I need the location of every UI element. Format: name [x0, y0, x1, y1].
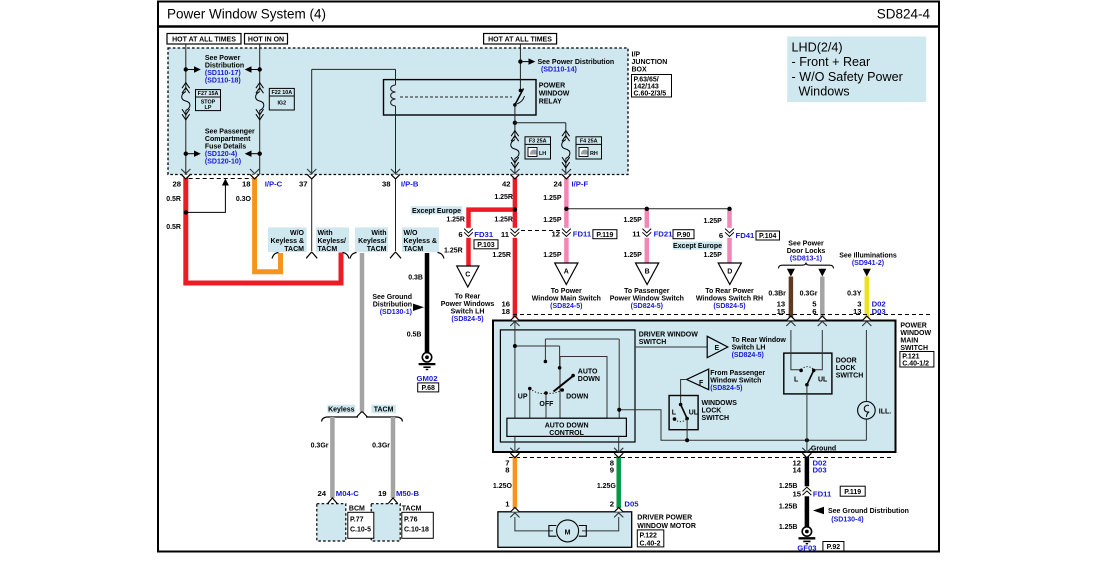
svg-text:0.5R: 0.5R: [166, 196, 181, 203]
svg-text:ILL.: ILL.: [879, 408, 891, 415]
svg-text:UL: UL: [689, 410, 699, 417]
svg-text:WINDOW: WINDOW: [900, 330, 931, 337]
svg-text:TACM: TACM: [404, 246, 424, 253]
svg-text:Except Europe: Except Europe: [673, 243, 722, 250]
svg-text:18: 18: [242, 180, 251, 189]
svg-text:I/P-B: I/P-B: [401, 180, 419, 189]
svg-text:1: 1: [505, 499, 510, 508]
svg-text:MAIN: MAIN: [900, 338, 918, 345]
svg-text:15: 15: [792, 490, 801, 499]
svg-text:TACM: TACM: [367, 246, 387, 253]
svg-text:6: 6: [458, 230, 462, 239]
svg-text:FD41: FD41: [736, 231, 756, 240]
svg-text:I/P: I/P: [632, 52, 641, 59]
svg-text:12: 12: [551, 229, 560, 238]
svg-text:11: 11: [501, 230, 510, 239]
svg-text:1.25R: 1.25R: [446, 216, 465, 223]
svg-text:Window Switch: Window Switch: [710, 378, 761, 385]
svg-text:0.5B: 0.5B: [407, 332, 422, 339]
svg-text:1.25R: 1.25R: [492, 252, 511, 259]
svg-text:1.25R: 1.25R: [494, 194, 513, 201]
svg-text:P.90: P.90: [677, 232, 691, 239]
svg-text:(SD110-18): (SD110-18): [205, 77, 241, 84]
svg-text:LHD(2/4): LHD(2/4): [792, 41, 843, 55]
svg-text:0.3Y: 0.3Y: [847, 290, 862, 297]
svg-text:Power Window Switch: Power Window Switch: [610, 296, 684, 303]
svg-text:SD824-4: SD824-4: [877, 7, 931, 22]
svg-text:C: C: [465, 272, 470, 279]
svg-text:F4 25A: F4 25A: [580, 139, 598, 145]
svg-text:Keyless/: Keyless/: [358, 238, 386, 245]
svg-text:DRIVER WINDOW: DRIVER WINDOW: [639, 332, 699, 339]
svg-text:POWER: POWER: [539, 83, 565, 90]
svg-text:P.63/65/: P.63/65/: [634, 76, 659, 83]
svg-text:M50-B: M50-B: [396, 489, 420, 498]
svg-text:11: 11: [632, 229, 641, 238]
svg-text:C.10-5: C.10-5: [350, 527, 371, 534]
svg-text:FD11: FD11: [813, 490, 832, 499]
svg-text:GM02: GM02: [417, 374, 438, 383]
svg-text:IG2: IG2: [277, 101, 286, 107]
svg-text:DRIVER POWER: DRIVER POWER: [637, 514, 692, 521]
svg-text:Except Europe: Except Europe: [412, 208, 461, 215]
svg-text:1.25P: 1.25P: [704, 218, 723, 225]
svg-text:Keyless/: Keyless/: [318, 238, 346, 245]
svg-text:42: 42: [502, 180, 511, 189]
svg-text:18: 18: [501, 307, 510, 316]
svg-text:24: 24: [317, 489, 326, 498]
svg-text:1.25P: 1.25P: [704, 252, 723, 259]
svg-text:Distribution: Distribution: [373, 302, 412, 309]
svg-text:I/P-F: I/P-F: [572, 180, 589, 189]
svg-text:P.76: P.76: [404, 517, 418, 524]
svg-text:1.25P: 1.25P: [543, 217, 562, 224]
svg-text:See Ground Distribution: See Ground Distribution: [828, 508, 909, 515]
svg-text:BCM: BCM: [349, 506, 365, 513]
svg-text:A: A: [564, 269, 569, 276]
svg-text:0.3Gr: 0.3Gr: [800, 290, 818, 297]
svg-text:P.122: P.122: [640, 532, 657, 539]
svg-text:142/143: 142/143: [634, 83, 659, 90]
svg-text:(SD824-5): (SD824-5): [451, 316, 483, 323]
svg-text:M: M: [565, 529, 571, 536]
svg-text:F27 15A: F27 15A: [198, 91, 219, 97]
svg-text:To Rear Power: To Rear Power: [705, 288, 754, 295]
svg-text:Door Locks: Door Locks: [787, 248, 826, 255]
svg-text:(SD120-10): (SD120-10): [205, 159, 241, 166]
svg-text:BOX: BOX: [632, 67, 648, 74]
svg-text:TACM: TACM: [284, 246, 304, 253]
svg-text:TACM: TACM: [318, 246, 338, 253]
svg-text:HOT IN ON: HOT IN ON: [248, 37, 284, 44]
svg-text:OFF: OFF: [539, 401, 554, 408]
svg-text:RH: RH: [590, 151, 598, 157]
svg-text:C.40-1/2: C.40-1/2: [902, 360, 929, 367]
svg-text:C.60-2/3/5: C.60-2/3/5: [634, 90, 667, 97]
svg-text:F22 10A: F22 10A: [271, 90, 292, 96]
svg-text:Compartment: Compartment: [205, 136, 251, 143]
svg-text:To Passenger: To Passenger: [624, 288, 670, 295]
svg-text:Windows Switch RH: Windows Switch RH: [696, 296, 763, 303]
svg-text:1.25P: 1.25P: [543, 195, 562, 202]
svg-text:C.40-2: C.40-2: [640, 540, 661, 547]
svg-text:(SD824-5): (SD824-5): [631, 303, 663, 310]
svg-text:19: 19: [378, 489, 387, 498]
svg-text:FD21: FD21: [654, 229, 674, 238]
svg-text:To Power: To Power: [551, 288, 582, 295]
svg-text:HOT AT ALL TIMES: HOT AT ALL TIMES: [488, 37, 552, 44]
svg-text:See Illuminations: See Illuminations: [839, 253, 897, 260]
svg-text:DOOR: DOOR: [836, 358, 857, 365]
svg-text:To Rear: To Rear: [455, 294, 481, 301]
svg-text:See Power: See Power: [205, 55, 241, 62]
svg-text:P.92: P.92: [827, 544, 841, 551]
svg-text:Windows: Windows: [799, 85, 850, 99]
svg-text:W/O: W/O: [290, 230, 305, 237]
svg-text:P.103: P.103: [477, 242, 494, 249]
svg-text:24: 24: [553, 180, 562, 189]
svg-text:28: 28: [172, 180, 181, 189]
svg-text:(SD941-2): (SD941-2): [852, 260, 884, 267]
svg-text:DOWN: DOWN: [578, 376, 600, 383]
svg-text:With: With: [371, 230, 386, 237]
svg-text:LH: LH: [539, 151, 546, 157]
svg-text:FD31: FD31: [474, 230, 494, 239]
svg-text:D03: D03: [813, 465, 827, 474]
svg-text:I/P-C: I/P-C: [265, 180, 283, 189]
svg-text:C.10-18: C.10-18: [404, 527, 429, 534]
svg-text:See Ground: See Ground: [372, 294, 412, 301]
svg-text:With: With: [318, 230, 333, 237]
svg-text:0.5R: 0.5R: [166, 224, 181, 231]
svg-text:Switch LH: Switch LH: [732, 344, 766, 351]
svg-text:(SD813-1): (SD813-1): [790, 256, 822, 263]
svg-text:Power Window System (4): Power Window System (4): [167, 7, 326, 22]
svg-text:LOCK: LOCK: [702, 407, 722, 414]
svg-text:P.121: P.121: [902, 353, 919, 360]
svg-text:Window Main Switch: Window Main Switch: [532, 296, 601, 303]
svg-text:P.104: P.104: [759, 233, 776, 240]
svg-text:(SD110-17): (SD110-17): [205, 70, 241, 77]
svg-text:WINDOW: WINDOW: [539, 91, 570, 98]
svg-text:D05: D05: [624, 499, 639, 508]
svg-text:- Front + Rear: - Front + Rear: [792, 55, 871, 69]
svg-text:8: 8: [505, 465, 510, 474]
svg-text:(SD130-1): (SD130-1): [380, 309, 412, 316]
svg-text:W/O: W/O: [404, 230, 419, 237]
svg-text:38: 38: [382, 180, 391, 189]
svg-text:0.3Br: 0.3Br: [768, 290, 786, 297]
svg-text:P.119: P.119: [844, 489, 861, 496]
svg-text:L: L: [794, 376, 799, 383]
svg-text:Fuse Details: Fuse Details: [205, 144, 246, 151]
svg-text:Distribution: Distribution: [205, 62, 244, 69]
svg-text:1.25G: 1.25G: [597, 483, 617, 490]
svg-text:Switch LH: Switch LH: [451, 309, 485, 316]
svg-text:0.3O: 0.3O: [236, 196, 252, 203]
svg-text:POWER: POWER: [900, 323, 926, 330]
svg-text:9: 9: [610, 465, 614, 474]
svg-text:6: 6: [719, 231, 723, 240]
svg-text:JUNCTION: JUNCTION: [632, 59, 668, 66]
svg-text:1.25B: 1.25B: [779, 524, 798, 531]
svg-text:HOT AT ALL TIMES: HOT AT ALL TIMES: [172, 37, 236, 44]
svg-text:Keyless &: Keyless &: [271, 238, 304, 245]
svg-text:P.119: P.119: [596, 232, 613, 239]
svg-text:LOCK: LOCK: [836, 365, 856, 372]
svg-text:(SD824-5): (SD824-5): [713, 303, 745, 310]
svg-text:(SD824-5): (SD824-5): [710, 385, 742, 392]
svg-text:AUTO: AUTO: [578, 368, 598, 375]
svg-text:(SD120-4): (SD120-4): [205, 151, 237, 158]
svg-text:0.3B: 0.3B: [408, 274, 423, 281]
svg-text:AUTO DOWN: AUTO DOWN: [545, 422, 589, 429]
svg-text:F: F: [699, 380, 704, 387]
svg-text:- W/O Safety Power: - W/O Safety Power: [792, 70, 903, 84]
svg-text:See Power Distribution: See Power Distribution: [538, 59, 615, 66]
svg-text:0.3Gr: 0.3Gr: [372, 443, 390, 450]
svg-text:Keyless: Keyless: [328, 407, 355, 414]
svg-text:1.25P: 1.25P: [624, 252, 643, 259]
svg-text:F3 25A: F3 25A: [529, 139, 547, 145]
svg-text:RELAY: RELAY: [539, 99, 562, 106]
svg-text:37: 37: [299, 180, 308, 189]
svg-text:2: 2: [610, 499, 614, 508]
svg-text:SWITCH: SWITCH: [702, 415, 730, 422]
svg-text:See Passenger: See Passenger: [205, 129, 255, 136]
svg-text:1.25P: 1.25P: [624, 217, 643, 224]
svg-text:Power Windows: Power Windows: [441, 301, 495, 308]
svg-text:CONTROL: CONTROL: [549, 430, 584, 437]
svg-text:1.25R: 1.25R: [494, 216, 513, 223]
svg-text:(SD130-4): (SD130-4): [831, 517, 863, 524]
svg-text:SWITCH: SWITCH: [836, 373, 864, 380]
svg-text:SWITCH: SWITCH: [900, 345, 928, 352]
svg-text:B: B: [645, 269, 650, 276]
svg-text:P.68: P.68: [421, 385, 435, 392]
svg-text:WINDOWS: WINDOWS: [702, 400, 738, 407]
svg-text:0.3Gr: 0.3Gr: [311, 443, 329, 450]
svg-text:From Passenger: From Passenger: [710, 370, 765, 377]
svg-text:P.77: P.77: [350, 517, 364, 524]
svg-text:E: E: [715, 345, 720, 352]
svg-text:DOWN: DOWN: [566, 393, 588, 400]
svg-text:UL: UL: [818, 376, 828, 383]
svg-text:14: 14: [792, 465, 801, 474]
svg-text:1.25R: 1.25R: [444, 247, 463, 254]
svg-text:GF03: GF03: [797, 544, 816, 553]
svg-text:WINDOW MOTOR: WINDOW MOTOR: [637, 523, 696, 530]
svg-text:(SD824-5): (SD824-5): [732, 352, 764, 359]
svg-text:1.25O: 1.25O: [493, 483, 513, 490]
svg-text:(SD110-14): (SD110-14): [541, 67, 577, 74]
svg-text:M04-C: M04-C: [336, 489, 360, 498]
svg-text:SWITCH: SWITCH: [639, 339, 667, 346]
svg-text:To Rear Window: To Rear Window: [732, 337, 787, 344]
svg-text:Keyless &: Keyless &: [404, 238, 437, 245]
svg-text:UP: UP: [518, 393, 528, 400]
svg-text:1.25B: 1.25B: [779, 504, 798, 511]
svg-text:TACM: TACM: [374, 407, 394, 414]
svg-text:TACM: TACM: [402, 506, 422, 513]
svg-text:LP: LP: [205, 105, 212, 111]
svg-text:1.25P: 1.25P: [543, 252, 562, 259]
svg-text:FD11: FD11: [573, 229, 592, 238]
svg-text:See Power: See Power: [788, 241, 824, 248]
svg-text:Ground: Ground: [811, 446, 836, 453]
svg-text:L: L: [672, 410, 677, 417]
svg-text:D: D: [727, 269, 732, 276]
svg-text:(SD824-5): (SD824-5): [550, 303, 582, 310]
